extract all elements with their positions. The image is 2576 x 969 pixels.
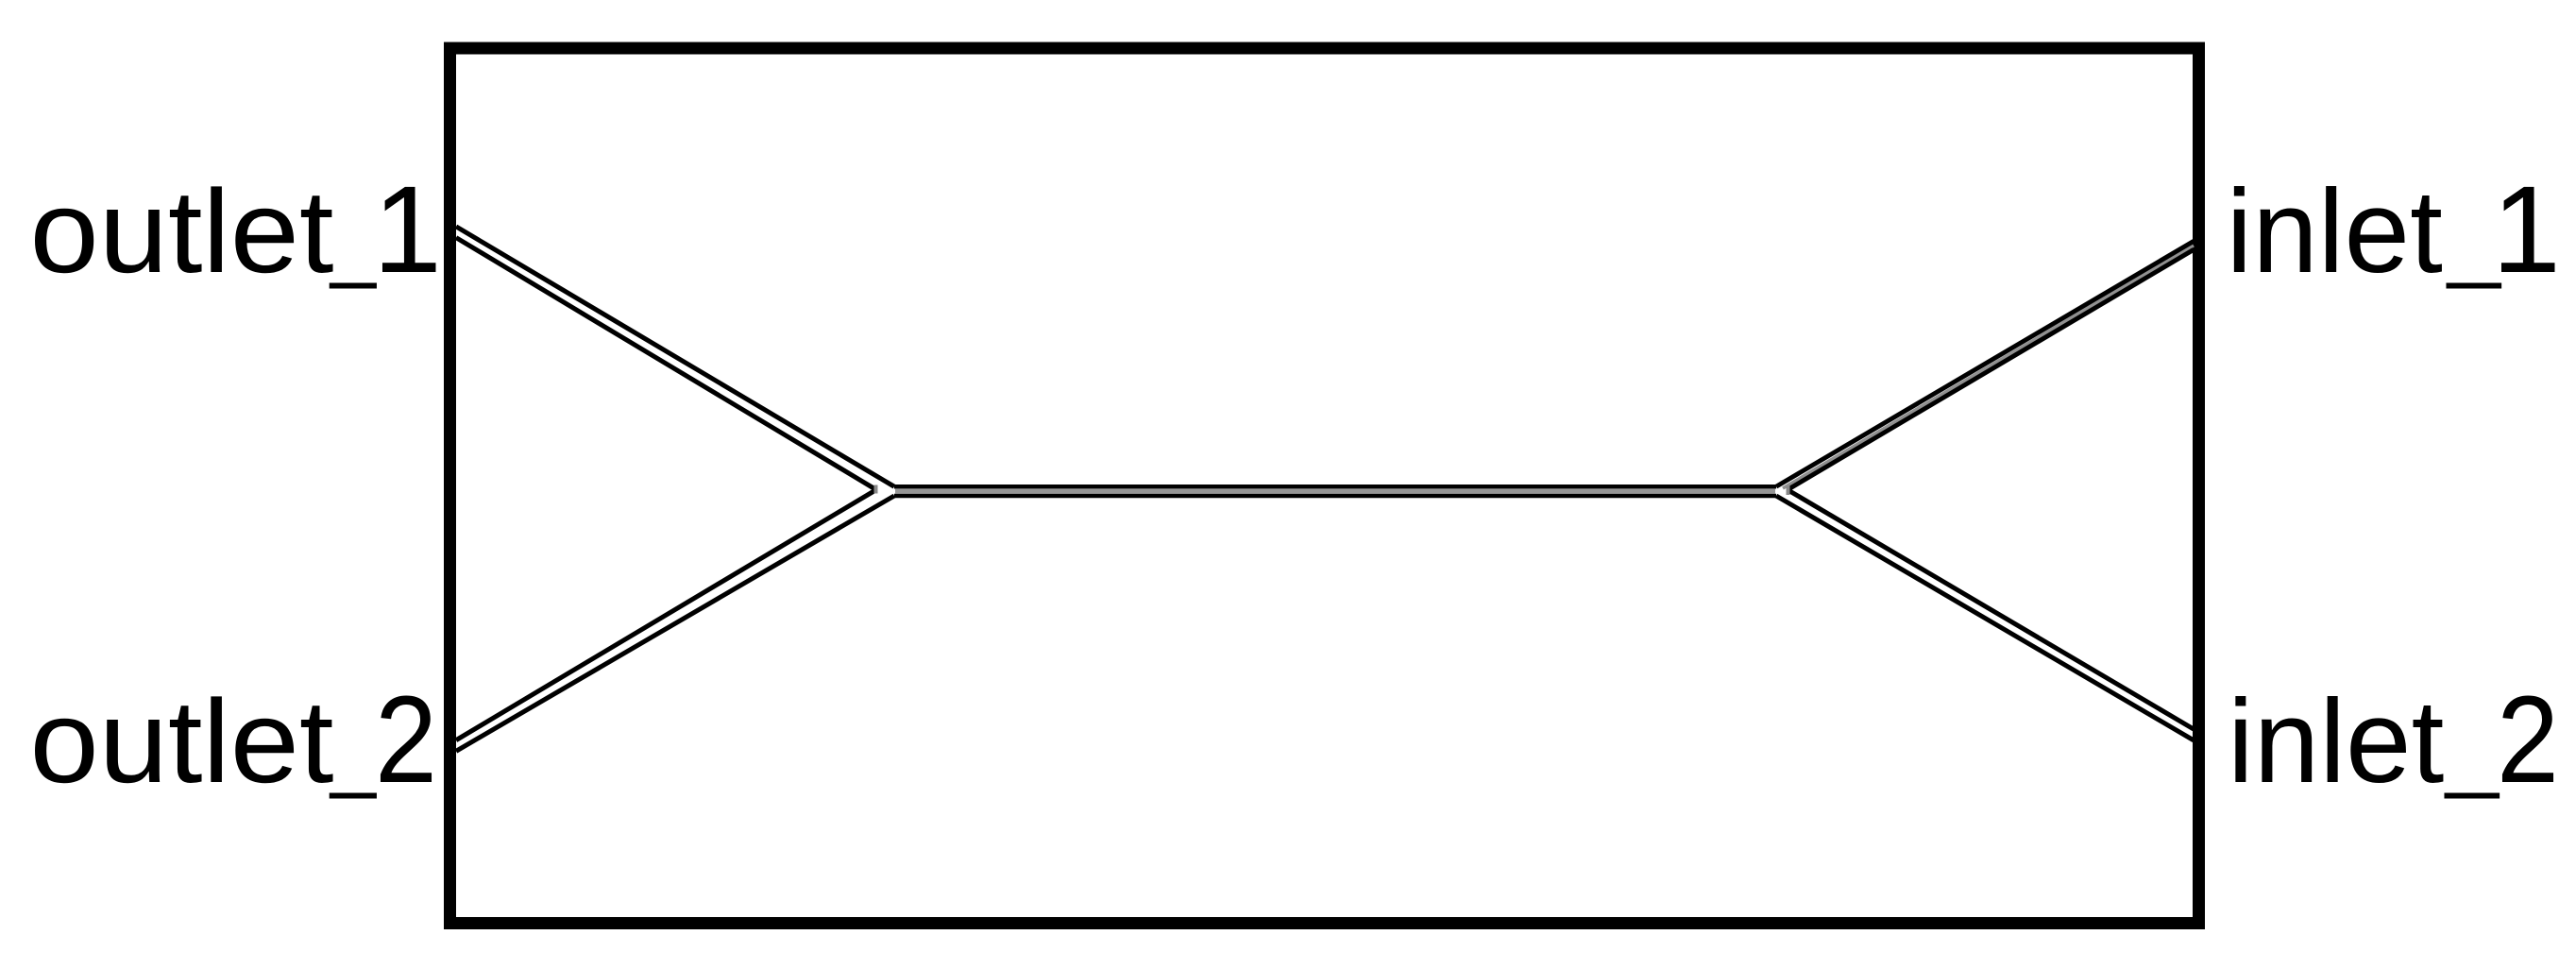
svg-text:inlet: inlet xyxy=(2227,166,2443,297)
right junction vertex xyxy=(1787,486,1790,496)
svg-text:_: _ xyxy=(2444,701,2500,800)
main channel lower wall xyxy=(894,494,1776,499)
channel inlet_2 upper wall xyxy=(1788,490,2194,729)
svg-text:inlet: inlet xyxy=(2228,676,2444,807)
svg-text:1: 1 xyxy=(373,160,442,298)
main channel upper wall xyxy=(894,484,1776,489)
channel outlet_1 upper wall xyxy=(456,227,894,486)
channel outlet_2 lower wall xyxy=(456,496,894,751)
channel inlet_1 core xyxy=(1783,246,2194,488)
channel outlet_2 upper wall xyxy=(456,490,876,740)
svg-text:_: _ xyxy=(329,701,377,800)
svg-text:outlet: outlet xyxy=(30,166,334,297)
svg-text:_: _ xyxy=(329,191,377,290)
channel outlet_1 lower wall xyxy=(456,238,876,490)
svg-text:2: 2 xyxy=(2497,670,2559,808)
svg-text:outlet: outlet xyxy=(30,676,334,807)
svg-text:2: 2 xyxy=(375,670,437,808)
chip outline rectangle xyxy=(450,48,2199,924)
main channel core xyxy=(895,489,1775,494)
left junction vertex xyxy=(874,485,878,494)
channel inlet_1 upper wall xyxy=(1776,241,2194,486)
channel inlet_1 lower wall xyxy=(1788,249,2194,489)
svg-text:1: 1 xyxy=(2492,160,2561,298)
channel inlet_2 lower wall xyxy=(1776,496,2194,740)
